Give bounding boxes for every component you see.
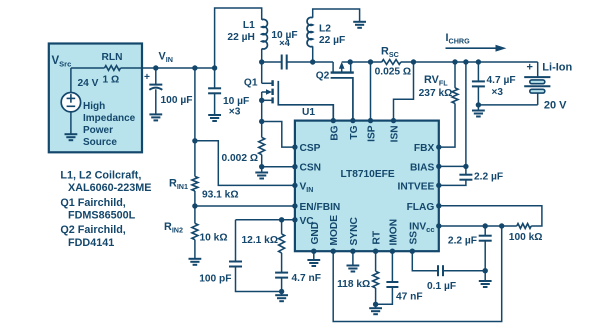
capacitor C 100uF bbox=[144, 68, 192, 120]
wire VC bbox=[236, 219, 295, 221]
svg-text:FDMS86500L: FDMS86500L bbox=[68, 209, 136, 221]
wire MODE to INVcc bbox=[333, 226, 502, 322]
svg-text:ISN: ISN bbox=[390, 125, 401, 142]
svg-text:118 kΩ: 118 kΩ bbox=[337, 279, 370, 290]
svg-text:Q1 Fairchild,: Q1 Fairchild, bbox=[60, 197, 125, 209]
wire L2 bottom bbox=[312, 46, 314, 62]
node EN/FBIN bbox=[192, 203, 197, 208]
ground (GND pin) bbox=[307, 251, 320, 266]
junction RVFL bbox=[452, 59, 457, 64]
svg-text:×3: ×3 bbox=[229, 107, 241, 118]
wire ISN jog bbox=[394, 62, 414, 121]
wire Rin column bbox=[194, 68, 196, 176]
svg-text:RIN1: RIN1 bbox=[169, 178, 188, 192]
svg-text:4.7 nF: 4.7 nF bbox=[292, 273, 321, 284]
resistor R_IN1 93.1k bbox=[169, 176, 239, 200]
wire FLAG loop bbox=[439, 206, 542, 226]
svg-text:CSN: CSN bbox=[300, 163, 322, 174]
svg-text:RLN: RLN bbox=[102, 52, 123, 63]
node L1/Q1 bbox=[259, 59, 264, 64]
wire Rin1 to node bbox=[194, 191, 196, 206]
svg-text:10 µF: 10 µF bbox=[223, 96, 249, 107]
wire V_Src to RLN bbox=[70, 68, 72, 93]
resistor R_IN2 10k bbox=[164, 206, 228, 244]
node INVcc cap bbox=[483, 223, 488, 228]
pin BG bbox=[329, 118, 340, 141]
pin INTVEE bbox=[398, 181, 442, 192]
transistor Q1 NMOS bbox=[262, 62, 334, 121]
capacitor C 2.2uF (BIAS) bbox=[439, 172, 503, 186]
svg-text:Q2 Fairchild,: Q2 Fairchild, bbox=[60, 224, 125, 236]
pin RT bbox=[372, 230, 383, 254]
wire to L1 top bbox=[215, 8, 262, 68]
wire EN/FBIN bbox=[195, 205, 295, 207]
capacitor C 47nF bbox=[376, 251, 423, 304]
svg-text:Q1: Q1 bbox=[244, 77, 258, 88]
pin ISN bbox=[390, 118, 401, 142]
svg-text:L1, L2 Coilcraft,: L1, L2 Coilcraft, bbox=[60, 170, 141, 182]
svg-text:RSC: RSC bbox=[381, 46, 399, 60]
ground (SS) bbox=[479, 271, 492, 287]
svg-text:2.2 µF: 2.2 µF bbox=[448, 236, 477, 247]
resistor R 118k bbox=[337, 251, 379, 290]
label V_Src bbox=[52, 55, 72, 69]
pin FLAG bbox=[407, 202, 442, 213]
capacitor C 4.7uF x3 bbox=[472, 62, 516, 105]
node MODE link bbox=[499, 223, 504, 228]
ground (L2 top) bbox=[353, 22, 366, 28]
wire BIAS column bbox=[439, 62, 466, 175]
node SS ground bbox=[483, 268, 488, 273]
pin MODE bbox=[329, 215, 340, 254]
label U1 bbox=[302, 107, 315, 118]
wire RT bottom bbox=[375, 288, 377, 304]
svg-text:100 kΩ: 100 kΩ bbox=[509, 232, 543, 243]
svg-text:BIAS: BIAS bbox=[410, 162, 435, 173]
node L2 bbox=[310, 59, 315, 64]
svg-text:4.7 µF: 4.7 µF bbox=[487, 75, 516, 86]
voltage source V_Src 24 V bbox=[61, 93, 80, 112]
ground (R_IN2) bbox=[189, 240, 202, 265]
resistor R 12.1k bbox=[242, 220, 285, 253]
svg-text:20 V: 20 V bbox=[544, 99, 567, 111]
wire sense to CSN bbox=[261, 155, 263, 167]
wire Q2 to RSC bbox=[350, 61, 382, 63]
junction Rin column bbox=[192, 65, 197, 70]
svg-text:Li-Ion: Li-Ion bbox=[542, 62, 572, 74]
svg-text:12.1 kΩ: 12.1 kΩ bbox=[242, 235, 279, 246]
op-amp U1 LT8710EFE box bbox=[295, 121, 439, 252]
svg-text:×4: ×4 bbox=[279, 38, 291, 49]
junction L1 column bbox=[212, 65, 217, 70]
svg-text:L2: L2 bbox=[319, 23, 331, 34]
wire Q1 source down bbox=[261, 100, 263, 137]
svg-text:SYNC: SYNC bbox=[349, 217, 360, 246]
svg-text:U1: U1 bbox=[302, 107, 315, 118]
wire 0.1uF to ground node bbox=[443, 270, 485, 272]
capacitor C 2.2uF (INVcc) bbox=[448, 226, 492, 271]
svg-text:×3: ×3 bbox=[492, 87, 504, 98]
svg-text:RVFL: RVFL bbox=[424, 74, 448, 88]
svg-text:RIN2: RIN2 bbox=[164, 221, 183, 235]
wire SS bbox=[412, 251, 438, 271]
svg-text:ISP: ISP bbox=[367, 125, 378, 142]
battery Li-Ion 20V bbox=[478, 62, 572, 112]
node Q1 source bbox=[259, 98, 264, 103]
svg-text:10 kΩ: 10 kΩ bbox=[200, 233, 228, 244]
wire node to coupling cap bbox=[262, 61, 282, 63]
ground (CSN) bbox=[255, 167, 268, 179]
capacitor C 10uF x4 (series) bbox=[271, 30, 297, 70]
ground (source) bbox=[65, 112, 78, 140]
node Vin tap bbox=[192, 138, 197, 143]
pin SYNC bbox=[349, 217, 360, 254]
pin ISP bbox=[367, 118, 378, 142]
junction 4.7uF bbox=[476, 59, 481, 64]
svg-text:22 µH: 22 µH bbox=[227, 32, 254, 43]
svg-text:MODE: MODE bbox=[329, 215, 340, 246]
svg-text:High: High bbox=[83, 101, 105, 112]
transistor Q2 PMOS bbox=[331, 62, 354, 121]
label 1 Ohm bbox=[103, 75, 120, 86]
svg-text:0.002 Ω: 0.002 Ω bbox=[222, 153, 259, 164]
svg-text:RT: RT bbox=[372, 230, 383, 244]
pin CSN bbox=[292, 163, 321, 174]
resistor RV_FL 237k bbox=[419, 62, 458, 147]
wire ISP bbox=[370, 62, 372, 121]
node battery return bbox=[476, 102, 481, 107]
node CSN bbox=[259, 164, 264, 169]
svg-text:+: + bbox=[527, 62, 533, 74]
svg-text:22 µF: 22 µF bbox=[319, 35, 345, 46]
svg-text:24 V: 24 V bbox=[78, 78, 99, 89]
wire coupling cap to L2 bbox=[287, 61, 333, 63]
svg-text:TG: TG bbox=[349, 125, 360, 139]
svg-text:FDD4141: FDD4141 bbox=[68, 237, 114, 249]
svg-text:237 kΩ: 237 kΩ bbox=[419, 88, 453, 99]
transistor Q2 label bbox=[316, 71, 330, 82]
note text parts list bbox=[60, 170, 151, 249]
node VC branch bbox=[279, 217, 284, 222]
capacitor C 0.1uF (series) bbox=[427, 265, 456, 292]
pin CSP bbox=[292, 143, 320, 154]
pin GND bbox=[310, 222, 321, 254]
source box (high impedance power source) bbox=[49, 44, 142, 153]
svg-text:+: + bbox=[144, 72, 150, 83]
capacitor C 10uF x3 bbox=[208, 68, 249, 121]
pin FBX bbox=[414, 143, 442, 154]
pin VIN bbox=[292, 181, 313, 194]
svg-text:FLAG: FLAG bbox=[407, 202, 435, 213]
wire INVcc bbox=[439, 225, 517, 227]
wire CSN bbox=[262, 166, 295, 168]
svg-text:LT8710EFE: LT8710EFE bbox=[341, 169, 395, 180]
svg-text:100 pF: 100 pF bbox=[199, 274, 231, 285]
pin VC bbox=[292, 216, 314, 227]
svg-text:93.1 kΩ: 93.1 kΩ bbox=[202, 189, 239, 200]
resistor R 0.002 Ohm bbox=[222, 137, 265, 164]
wire Vin pin jog bbox=[195, 141, 295, 186]
ground (output) bbox=[472, 105, 485, 117]
svg-text:SS: SS bbox=[408, 231, 419, 245]
wire L1 bottom bbox=[261, 49, 263, 62]
transistor Q1 label bbox=[244, 77, 258, 88]
svg-text:100 µF: 100 µF bbox=[161, 95, 193, 106]
wire RSC to battery corner bbox=[401, 61, 538, 63]
svg-text:2.2 µF: 2.2 µF bbox=[474, 172, 503, 183]
resistor R_SC 0.025 Ohm bbox=[375, 46, 412, 78]
ground (RT) bbox=[369, 304, 382, 314]
junction ISN jog bbox=[411, 59, 416, 64]
label High Impedance Power Source bbox=[83, 101, 136, 148]
inductor L1 22uH bbox=[227, 19, 267, 49]
label RLN bbox=[102, 52, 123, 63]
svg-text:IMON: IMON bbox=[388, 219, 399, 246]
svg-text:0.1 µF: 0.1 µF bbox=[427, 281, 456, 292]
node BIAS bbox=[463, 164, 468, 169]
svg-text:Impedance: Impedance bbox=[83, 113, 136, 124]
resistor R 100k bbox=[509, 224, 543, 244]
svg-text:1 Ω: 1 Ω bbox=[103, 75, 120, 86]
pin BIAS bbox=[410, 162, 442, 173]
svg-text:XAL6060-223ME: XAL6060-223ME bbox=[68, 182, 151, 194]
svg-text:Power: Power bbox=[83, 125, 113, 136]
pin SS bbox=[408, 231, 419, 254]
node CSP tap bbox=[259, 119, 264, 124]
label 24 V bbox=[78, 78, 99, 89]
label I_CHRG with arrow bbox=[446, 32, 507, 52]
capacitor C 4.7nF bbox=[275, 253, 321, 292]
node comp ground bbox=[279, 289, 284, 294]
node RT/IMON ground bbox=[373, 302, 378, 307]
node Q2 source bbox=[348, 59, 353, 64]
wire Vin rail bbox=[156, 67, 215, 69]
resistor RLN 1 Ohm bbox=[105, 66, 121, 71]
svg-text:VIN: VIN bbox=[159, 51, 173, 65]
capacitor C 100pF bbox=[199, 220, 281, 292]
wire RLN row bbox=[71, 67, 156, 69]
svg-text:EN/FBIN: EN/FBIN bbox=[300, 202, 341, 213]
svg-text:BG: BG bbox=[329, 125, 340, 140]
svg-text:Source: Source bbox=[83, 137, 117, 148]
svg-text:FBX: FBX bbox=[414, 143, 435, 154]
ground (SYNC) bbox=[347, 251, 360, 271]
junction ISP bbox=[368, 59, 373, 64]
svg-text:INTVEE: INTVEE bbox=[398, 181, 435, 192]
wire CSP bbox=[262, 122, 295, 148]
pin IMON bbox=[388, 219, 399, 254]
svg-text:47 nF: 47 nF bbox=[396, 291, 423, 302]
pin EN/FBIN bbox=[292, 202, 340, 213]
svg-text:Q2: Q2 bbox=[316, 71, 330, 82]
junction BIAS column bbox=[463, 59, 468, 64]
wire L2 top to ground bbox=[313, 9, 360, 22]
pin INVcc bbox=[409, 221, 441, 234]
svg-text:ICHRG: ICHRG bbox=[446, 32, 471, 46]
svg-text:GND: GND bbox=[310, 222, 321, 245]
svg-text:CSP: CSP bbox=[300, 143, 321, 154]
svg-text:0.025 Ω: 0.025 Ω bbox=[375, 67, 412, 78]
ground (comp) bbox=[275, 292, 288, 302]
inductor L2 22uF bbox=[307, 17, 345, 46]
svg-text:L1: L1 bbox=[243, 20, 255, 31]
node V_IN bbox=[153, 51, 173, 71]
pin TG bbox=[349, 118, 360, 140]
